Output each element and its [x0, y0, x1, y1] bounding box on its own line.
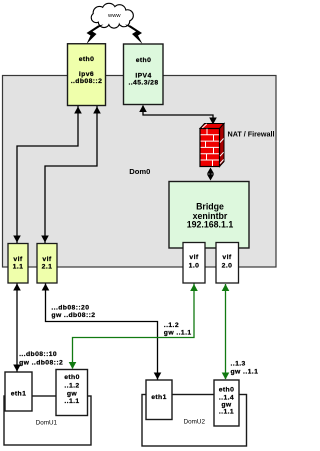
svg-text:www: www	[107, 13, 121, 19]
lightning bolt right	[125, 25, 143, 45]
svg-text:gw: gw	[67, 391, 78, 398]
svg-text:..db08::2: ..db08::2	[71, 78, 103, 85]
wire vif1.1 to DomU1 eth1	[16, 283, 18, 372]
svg-text:eth0: eth0	[64, 374, 80, 381]
box vif 2.1	[37, 244, 57, 284]
wire vif2.1 to DomU2 eth1	[46, 283, 158, 380]
svg-text:2.1: 2.1	[42, 264, 53, 271]
svg-text:..1.1: ..1.1	[64, 398, 79, 405]
svg-text:gw ..1.1: gw ..1.1	[164, 330, 192, 337]
Dom0 box	[3, 76, 277, 268]
wire vif2.0 to DomU2 eth0 (green)	[225, 284, 227, 379]
svg-text:eth0: eth0	[136, 57, 152, 64]
wire eth0IPV4 to firewall	[143, 106, 213, 125]
svg-text:NAT / Firewall: NAT / Firewall	[228, 129, 275, 138]
svg-text:...db08::10: ...db08::10	[19, 351, 57, 358]
svg-text:..1.2: ..1.2	[164, 322, 179, 329]
firewall icon	[200, 124, 224, 167]
wire vif1.0 to DomU1 eth0 (green)	[73, 284, 195, 369]
svg-text:...db08::20: ...db08::20	[51, 304, 89, 311]
svg-text:gw ..db08::2: gw ..db08::2	[19, 359, 63, 366]
box vif 1.1	[8, 244, 28, 284]
box DomU2	[142, 395, 247, 447]
svg-text:vif: vif	[222, 254, 231, 261]
svg-text:DomU2: DomU2	[184, 419, 206, 426]
svg-text:1.1: 1.1	[13, 264, 24, 271]
svg-text:192.168.1.1: 192.168.1.1	[187, 220, 234, 230]
svg-text:vif: vif	[42, 256, 51, 263]
box DomU1 eth0	[56, 370, 88, 416]
box DomU2 eth1	[146, 380, 172, 420]
svg-text:gw ..db08::2: gw ..db08::2	[51, 312, 95, 319]
svg-text:..1.3: ..1.3	[231, 361, 246, 368]
svg-text:vif: vif	[189, 254, 198, 261]
svg-text:..45.3/28: ..45.3/28	[128, 79, 158, 86]
svg-text:DomU1: DomU1	[36, 419, 58, 426]
svg-text:vif: vif	[13, 256, 22, 263]
box DomU1	[4, 396, 91, 445]
wire eth0ipv6 to vif1.1	[17, 106, 78, 243]
svg-text:eth1: eth1	[151, 394, 167, 401]
box vif 1.0	[183, 243, 205, 284]
svg-text:ipv6: ipv6	[79, 71, 94, 78]
svg-text:eth0: eth0	[219, 387, 235, 394]
svg-text:gw ..1.1: gw ..1.1	[231, 368, 259, 375]
wire eth0ipv6 to vif2.1	[45, 106, 97, 243]
box eth0 ipv6	[68, 44, 106, 106]
wire firewall to bridge (double arrow)	[210, 169, 212, 179]
cloud www	[92, 4, 133, 28]
svg-text:eth1: eth1	[11, 391, 27, 398]
box DomU2 eth0	[214, 380, 239, 426]
svg-text:..1.2: ..1.2	[64, 383, 79, 390]
svg-text:2.0: 2.0	[222, 262, 233, 269]
svg-text:..1.4: ..1.4	[219, 394, 234, 401]
svg-text:Dom0: Dom0	[129, 167, 150, 176]
box DomU1 eth1	[5, 372, 32, 411]
lightning bolt left	[87, 25, 104, 45]
box vif 2.0	[216, 243, 239, 284]
svg-text:..1.1: ..1.1	[219, 409, 234, 416]
svg-text:1.0: 1.0	[189, 262, 200, 269]
bridge box	[169, 182, 249, 249]
svg-text:eth0: eth0	[79, 56, 95, 63]
box eth0 IPV4	[124, 44, 164, 105]
